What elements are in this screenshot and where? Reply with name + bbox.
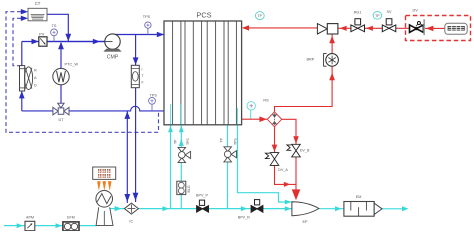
svg-text:PV: PV bbox=[39, 32, 45, 36]
wire DT line with hop over vertical bbox=[22, 106, 164, 111]
wire PCS column 1b through valve and BLG bbox=[180, 105, 182, 209]
wire EM exhaust bbox=[382, 208, 404, 210]
arrow up into BRP bbox=[329, 73, 335, 80]
wire square to RG1 bbox=[338, 27, 351, 29]
svg-text:PTC_W: PTC_W bbox=[64, 62, 78, 67]
instrument TP cyan near PCS top bbox=[255, 12, 264, 20]
valve BPV_R bbox=[251, 200, 263, 213]
wire dashed external return to CT bbox=[13, 18, 21, 65]
label storage tank text bbox=[448, 26, 465, 31]
wire main air line IC to EP bbox=[138, 208, 292, 210]
arrow into CT lower port bbox=[21, 16, 28, 21]
wire DV to storage bbox=[424, 27, 445, 29]
wire RS bottom branch to DV_A bbox=[274, 127, 276, 153]
arrow joining DV_B line bbox=[284, 182, 291, 187]
svg-text:TPS: TPS bbox=[143, 15, 151, 19]
wire PCS column 3 to EP upper port bbox=[238, 109, 292, 202]
svg-text:TPS: TPS bbox=[233, 138, 237, 145]
arrow toward square bbox=[340, 26, 347, 31]
wire line A: DT line down to IC bbox=[126, 111, 128, 203]
wire DV_B down to EP top bbox=[295, 157, 297, 191]
filter ITF on line B bbox=[131, 65, 139, 87]
mixer IC diamond bbox=[124, 203, 138, 214]
valve DV bbox=[410, 19, 425, 35]
meter EFM bbox=[63, 222, 79, 231]
wire dashed external supply to CT bbox=[6, 12, 159, 133]
arrow into EM bbox=[335, 206, 342, 211]
valve DV_A with solenoid bbox=[265, 153, 278, 166]
GROUP: red hot loop bbox=[242, 16, 471, 201]
svg-text:IC: IC bbox=[129, 219, 133, 223]
svg-text:DV: DV bbox=[413, 9, 419, 13]
wire TPS stem (DT line) bbox=[151, 104, 153, 111]
arrow up into RAD bbox=[19, 91, 25, 98]
wire TPS stem (pump outlet) bbox=[147, 28, 149, 34]
orange heat arrows bbox=[97, 181, 111, 191]
arrow into EP upper port bbox=[285, 200, 292, 205]
wire PCS hot outlet to RS bbox=[242, 118, 268, 120]
svg-text:DT: DT bbox=[58, 118, 64, 122]
meter APM bbox=[25, 221, 35, 230]
svg-text:EFM: EFM bbox=[67, 215, 75, 219]
svg-text:TPS: TPS bbox=[186, 138, 190, 145]
wire PCS column 2 through valve TV2 bbox=[227, 125, 229, 209]
muffler EM bbox=[344, 202, 382, 217]
arrow up into square bbox=[329, 36, 335, 43]
svg-text:TPS: TPS bbox=[150, 94, 158, 98]
wire CMP suction bbox=[47, 41, 105, 43]
arrow down into DV_B bbox=[293, 136, 299, 143]
wire col1b inside PCS bbox=[180, 104, 182, 124]
wire line B: discharge branch down to filter and IC bbox=[135, 35, 137, 66]
svg-text:SV: SV bbox=[386, 10, 392, 14]
valve DV_B with solenoid bbox=[287, 144, 300, 157]
svg-text:TS: TS bbox=[52, 24, 57, 28]
svg-text:RG1: RG1 bbox=[354, 11, 362, 15]
svg-text:BLG: BLG bbox=[187, 185, 191, 192]
arrow into IC bbox=[115, 206, 122, 211]
valve TV2 below PCS col2 bbox=[224, 147, 237, 162]
arrow up into PCS col1a bbox=[168, 126, 173, 133]
arrow out of storage toward DV bbox=[426, 26, 434, 32]
svg-text:TP: TP bbox=[174, 139, 178, 144]
svg-text:D: D bbox=[34, 84, 37, 88]
heater PTC_W bbox=[53, 68, 69, 84]
wire col1a inside PCS bbox=[170, 104, 172, 124]
heat source label box bbox=[93, 167, 116, 179]
wire CT outlet down to main line bbox=[47, 14, 68, 41]
ejector EP bbox=[292, 202, 319, 216]
valve RG1 bbox=[351, 19, 365, 32]
wire BRP down to RS diamond bbox=[275, 66, 333, 112]
wire CMP discharge into PCS bbox=[113, 34, 164, 36]
wire preheater outlet to IC bbox=[109, 208, 125, 210]
wire DV_A bottom over to DV_B line bbox=[275, 165, 297, 184]
svg-text:R: R bbox=[34, 69, 37, 73]
arrow up into main line from heater branch bbox=[58, 42, 64, 50]
wire RAD bottom to DT line bbox=[21, 91, 23, 111]
svg-text:CT: CT bbox=[35, 1, 41, 6]
radiator RAD with fan bbox=[20, 66, 33, 91]
svg-text:RS: RS bbox=[263, 98, 269, 102]
GROUP: cyan overlays inside PCS bbox=[171, 104, 238, 124]
wire RS right branch to DV_B bbox=[282, 119, 296, 144]
valve PV (filter box with diagonal) bbox=[39, 37, 47, 46]
instrument TP cyan between RG1 and SV bbox=[373, 12, 382, 20]
svg-text:TP: TP bbox=[220, 137, 224, 142]
arrow on inlet line 2 bbox=[56, 223, 63, 228]
strainer RS diamond bbox=[267, 112, 281, 127]
svg-text:APM: APM bbox=[26, 216, 34, 220]
arrow into EP lower port bbox=[285, 206, 292, 211]
valve BPV_P bbox=[197, 200, 209, 212]
arrow before BPV_R bbox=[241, 206, 248, 211]
arrow up above valve TV1 bbox=[179, 139, 184, 146]
arrow big down into EP bbox=[292, 189, 301, 200]
wire main water line to PV and pump bbox=[22, 41, 105, 43]
svg-text:BPV_R: BPV_R bbox=[238, 215, 250, 219]
instrument TS bbox=[51, 29, 58, 36]
instrument TPS at pump outlet bbox=[145, 22, 151, 28]
arrow down into DV_A bbox=[272, 145, 278, 152]
storage tank label box (rounded) bbox=[445, 23, 467, 34]
wire PCS column 1a down to main line bbox=[170, 105, 172, 209]
wire TPS stem at PCS outlet bbox=[250, 109, 252, 119]
wire hot return line into PCS top bbox=[248, 27, 317, 29]
label heat source text bbox=[98, 169, 111, 178]
svg-text:EM: EM bbox=[356, 195, 362, 199]
wire TS stem bbox=[53, 36, 55, 42]
pump CMP bbox=[104, 34, 121, 52]
valve SV bbox=[382, 19, 396, 32]
gauge block BLG bbox=[177, 181, 186, 194]
arrow toward RG1 bbox=[366, 26, 373, 31]
instrument TPS cyan at PCS outlet bbox=[247, 102, 255, 110]
arrow into PV bbox=[32, 39, 39, 44]
GROUP: blue water loop bbox=[6, 9, 164, 203]
arrow exhaust end bbox=[402, 206, 409, 211]
wire square down to BRP bbox=[331, 33, 333, 53]
arrow after IC bbox=[162, 206, 169, 211]
wire EP outlet to EM bbox=[319, 208, 344, 210]
svg-text:BRP: BRP bbox=[306, 57, 314, 61]
arrow toward CMP bbox=[93, 39, 100, 44]
dashed red enclosure DV unit bbox=[406, 16, 471, 41]
svg-text:DV_A: DV_A bbox=[278, 168, 288, 172]
wire ambient air inlet line bbox=[4, 225, 97, 227]
svg-text:CMP: CMP bbox=[107, 54, 119, 60]
svg-text:TP: TP bbox=[375, 14, 380, 18]
wire col3 inside PCS bbox=[237, 108, 239, 124]
svg-text:BPV_P: BPV_P bbox=[196, 193, 208, 197]
svg-text:I: I bbox=[142, 68, 143, 72]
wire SV to DV bbox=[396, 27, 410, 29]
svg-text:A: A bbox=[34, 76, 37, 80]
arrow into RS bbox=[259, 116, 266, 122]
cooling tower CT bbox=[28, 8, 47, 20]
svg-text:T: T bbox=[142, 74, 144, 78]
svg-text:TP: TP bbox=[258, 14, 263, 18]
svg-text:EP: EP bbox=[302, 220, 308, 224]
svg-text:DV_B: DV_B bbox=[300, 149, 310, 153]
arrow into CT top port bbox=[21, 9, 28, 14]
instrument TPS on DT line bbox=[149, 97, 156, 104]
arrow up into PCS col1b bbox=[179, 126, 184, 133]
three-way valve DT bbox=[53, 103, 69, 115]
arrow into PCS inlet bbox=[157, 32, 164, 37]
heat exchanger PCS bbox=[164, 21, 242, 125]
svg-text:PCS: PCS bbox=[196, 11, 211, 20]
arrow on inlet line 1 bbox=[17, 223, 24, 228]
air preheater (circle on stand) bbox=[96, 191, 113, 226]
wire left riser to RAD top bbox=[21, 42, 23, 66]
GROUP: cyan air path bbox=[4, 105, 409, 228]
arrow down at CT downcomer bbox=[65, 34, 71, 41]
blower BRP bbox=[324, 54, 339, 67]
svg-text:F: F bbox=[142, 81, 144, 85]
valve TV1 below PCS col1 bbox=[178, 147, 191, 162]
safety relief (triangle + square) bbox=[317, 24, 338, 34]
wire PTC_W branch bbox=[60, 43, 62, 68]
wire RG1 to SV bbox=[365, 27, 383, 29]
arrow into PCS top right bbox=[242, 25, 249, 30]
